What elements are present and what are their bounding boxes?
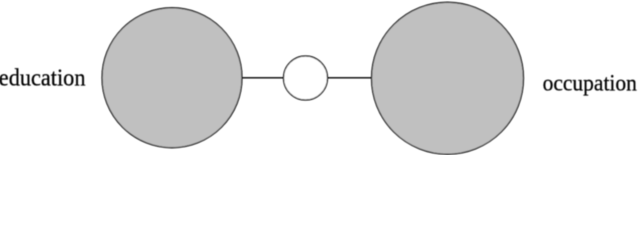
node occupation circle bbox=[372, 2, 524, 154]
wire right bbox=[327, 77, 372, 79]
node education circle bbox=[102, 8, 242, 148]
svg-text:education: education bbox=[0, 65, 86, 92]
svg-text:occupation: occupation bbox=[543, 70, 637, 96]
wire left bbox=[242, 77, 284, 79]
small latent node bbox=[284, 56, 328, 100]
